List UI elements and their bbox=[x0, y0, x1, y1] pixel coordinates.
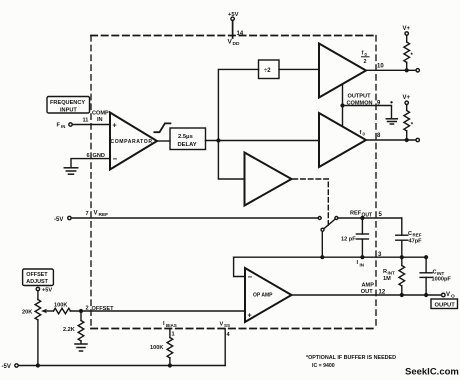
wire delay output to f0 buffer bbox=[206, 140, 320, 142]
svg-text:100K: 100K bbox=[54, 303, 67, 309]
svg-text:REF: REF bbox=[350, 211, 362, 217]
svg-text:÷2: ÷2 bbox=[264, 68, 271, 74]
node -5V rail terminal bbox=[2, 364, 19, 370]
wire REF OUT line bbox=[338, 217, 402, 219]
svg-text:BIAS: BIAS bbox=[166, 323, 177, 328]
wire FIN to comparator + input bbox=[73, 124, 111, 126]
wire output common to ground bbox=[343, 106, 392, 119]
junction offset/2.2K bbox=[79, 309, 83, 313]
buffer A2 (f0) bbox=[319, 113, 366, 167]
potentiometer 20K bbox=[22, 300, 54, 366]
ground (comparator input) bbox=[64, 168, 77, 174]
svg-text:DD: DD bbox=[233, 41, 240, 47]
node IBIAS bbox=[163, 321, 177, 328]
wire switch to IIN line bbox=[321, 232, 323, 258]
label f0/2 bbox=[362, 51, 370, 66]
junction rail/pot bbox=[36, 363, 40, 367]
svg-text:f: f bbox=[362, 51, 364, 57]
svg-text:7: 7 bbox=[86, 211, 89, 217]
svg-text:47pF: 47pF bbox=[409, 239, 423, 245]
svg-text:−: − bbox=[113, 155, 118, 164]
slew-rate waveform symbol bbox=[154, 123, 170, 132]
svg-text:1M: 1M bbox=[383, 276, 391, 282]
svg-text:DELAY: DELAY bbox=[178, 142, 197, 148]
svg-text:2: 2 bbox=[86, 306, 89, 312]
svg-text:100K: 100K bbox=[150, 345, 163, 351]
svg-text:2.2K: 2.2K bbox=[63, 327, 75, 333]
buffer A1 (f0/2) bbox=[319, 44, 366, 98]
svg-text:+5V: +5V bbox=[42, 288, 52, 294]
svg-text:IN: IN bbox=[61, 124, 65, 129]
svg-text:12 pF: 12 pF bbox=[341, 237, 356, 243]
junction delay output node bbox=[216, 138, 220, 142]
buffer A3 (optional) bbox=[245, 153, 292, 206]
svg-text:OUPUT: OUPUT bbox=[435, 303, 456, 309]
OFFSET ADJUST label box bbox=[23, 269, 54, 286]
ground (output common) bbox=[386, 119, 397, 124]
terminal VO output bbox=[442, 293, 446, 297]
node VO bbox=[446, 292, 455, 300]
capacitor CINT 1000pF bbox=[420, 257, 451, 295]
svg-text:V: V bbox=[446, 292, 450, 298]
svg-text:C: C bbox=[408, 231, 412, 237]
junction IIN/CINT bbox=[424, 255, 428, 259]
wire VSS to -5V rail bbox=[224, 329, 226, 366]
svg-text:-5V: -5V bbox=[54, 217, 63, 223]
wire output common tie bbox=[342, 84, 344, 126]
svg-text:1000pF: 1000pF bbox=[432, 277, 452, 283]
node OUTPUT COMMON bbox=[347, 94, 373, 107]
svg-text:INT: INT bbox=[437, 271, 445, 276]
IC package dashed boundary bbox=[91, 36, 376, 329]
svg-text:V: V bbox=[220, 322, 224, 328]
resistor 100K (offset) bbox=[54, 303, 71, 314]
terminal f0/2 output bbox=[416, 69, 419, 72]
svg-text:*OPTIONAL IF BUFFER IS NEEDED: *OPTIONAL IF BUFFER IS NEEDED bbox=[306, 355, 396, 361]
svg-text:20K: 20K bbox=[22, 310, 32, 316]
svg-text:10: 10 bbox=[377, 64, 384, 70]
wire op-amp output AMP OUT line bbox=[292, 294, 442, 296]
comparator U1 bbox=[110, 113, 157, 170]
svg-text:SeekIC.com: SeekIC.com bbox=[405, 367, 459, 378]
wire comparator output to delay bbox=[157, 140, 170, 142]
svg-text:INPUT: INPUT bbox=[60, 108, 77, 114]
svg-text:+: + bbox=[248, 313, 252, 320]
svg-text:f: f bbox=[360, 130, 362, 136]
node FIN input terminal bbox=[57, 123, 73, 130]
svg-text:FREQUENCY: FREQUENCY bbox=[50, 100, 85, 106]
node COMP IN bbox=[92, 111, 109, 124]
pin 6 GND bbox=[87, 153, 105, 159]
svg-text:SS: SS bbox=[224, 323, 230, 328]
svg-text:V+: V+ bbox=[403, 26, 411, 32]
svg-text:COMP: COMP bbox=[92, 111, 109, 117]
svg-text:R: R bbox=[383, 269, 387, 275]
wire junction down to optional buffer input bbox=[218, 141, 244, 180]
resistor pull-up R2 (optional) bbox=[404, 105, 414, 138]
svg-text:OUT: OUT bbox=[361, 289, 373, 295]
FREQUENCY INPUT label box bbox=[47, 97, 90, 114]
svg-text:INT: INT bbox=[388, 271, 396, 276]
junction output f0 bbox=[405, 138, 409, 142]
OUTPUT label box bbox=[431, 299, 458, 309]
svg-text:IC = 9400: IC = 9400 bbox=[312, 363, 335, 369]
resistor 2.2K bbox=[63, 311, 84, 344]
svg-text:AMP: AMP bbox=[362, 283, 375, 289]
wire comparator - input to ground bbox=[71, 159, 110, 168]
wire buffer A2 output to terminal bbox=[366, 139, 416, 141]
node AMP OUT bbox=[361, 283, 374, 296]
svg-text:IN: IN bbox=[97, 117, 103, 123]
node V+ (pull-up R2) bbox=[403, 95, 411, 105]
junction rail/100K bias bbox=[168, 363, 172, 367]
svg-text:2.5μs: 2.5μs bbox=[178, 134, 193, 140]
svg-text:−: − bbox=[248, 273, 253, 282]
node REF OUT bbox=[350, 211, 372, 219]
junction output f0/2 bbox=[405, 68, 409, 72]
divide-by-2 block bbox=[259, 60, 280, 79]
wire offset line to op-amp + input bbox=[70, 310, 245, 312]
svg-text:11: 11 bbox=[83, 118, 89, 124]
wire +5V to VDD pin 14 bbox=[232, 21, 234, 39]
svg-text:C: C bbox=[433, 270, 437, 276]
svg-text:OP AMP: OP AMP bbox=[253, 293, 273, 299]
capacitor 12pF bbox=[341, 218, 368, 257]
junction IIN/switch bbox=[320, 255, 324, 259]
node IIN bbox=[357, 260, 365, 268]
junction AMP OUT/CINT bbox=[424, 293, 428, 297]
svg-text:OUTPUT: OUTPUT bbox=[348, 94, 372, 100]
svg-text:V: V bbox=[94, 211, 98, 217]
svg-text:-5V: -5V bbox=[2, 364, 11, 370]
node VDD bbox=[228, 39, 240, 48]
wire -5V rail bbox=[19, 365, 226, 367]
ground (2.2K) bbox=[75, 344, 87, 351]
junction IIN/12pF bbox=[360, 255, 364, 259]
svg-text:12: 12 bbox=[379, 290, 386, 296]
node +5V supply terminal bbox=[228, 12, 239, 20]
op-amp U2 bbox=[245, 268, 292, 322]
svg-text:REF: REF bbox=[413, 233, 422, 238]
svg-text:OFFSET: OFFSET bbox=[26, 272, 48, 278]
resistor RINT 1M bbox=[383, 257, 405, 295]
svg-text:REF: REF bbox=[99, 212, 109, 218]
svg-text:F: F bbox=[57, 123, 61, 129]
svg-text:OFFSET: OFFSET bbox=[92, 306, 115, 312]
node V+ (pull-up R1) bbox=[403, 26, 411, 35]
capacitor CREF 47pF bbox=[396, 218, 422, 257]
dashed wire optional buffer output to switch bbox=[293, 179, 328, 225]
wire VREF line bbox=[71, 217, 317, 219]
svg-text:2: 2 bbox=[364, 59, 367, 65]
svg-text:COMMON: COMMON bbox=[347, 101, 373, 107]
svg-text:+: + bbox=[113, 123, 117, 130]
node VREF bbox=[94, 211, 109, 219]
node VSS bbox=[220, 322, 231, 329]
wire buffer A1 output to terminal bbox=[366, 69, 416, 71]
junction IIN/CREF/RINT bbox=[400, 255, 404, 259]
wire junction up to divide-by-2 bbox=[218, 69, 258, 140]
svg-text:IN: IN bbox=[360, 263, 365, 268]
wire IIN summing line bbox=[234, 256, 427, 258]
junction AMP OUT/RINT bbox=[400, 293, 404, 297]
switch S1 bbox=[318, 217, 338, 232]
node -5V VREF terminal bbox=[54, 216, 71, 223]
svg-text:14: 14 bbox=[237, 31, 244, 37]
node +5V offset terminal bbox=[36, 287, 52, 293]
terminal f0 output bbox=[416, 138, 419, 141]
label f0 bbox=[360, 130, 366, 137]
svg-text:ADJUST: ADJUST bbox=[26, 279, 48, 285]
svg-text:V+: V+ bbox=[403, 95, 411, 101]
junction REF OUT / 12pF bbox=[360, 216, 364, 220]
wire +5V to pot bbox=[37, 291, 39, 300]
svg-text:1: 1 bbox=[172, 332, 175, 338]
svg-text:COMPARATOR: COMPARATOR bbox=[111, 139, 153, 145]
wire divide-by-2 to buffer A1 bbox=[279, 68, 319, 70]
resistor 100K (bias) bbox=[150, 329, 173, 366]
junction output common bbox=[340, 103, 344, 107]
delay block 2.5us DELAY bbox=[170, 128, 206, 150]
resistor pull-up R1 (optional) bbox=[404, 36, 414, 69]
wire feedback IIN to op-amp inverting input bbox=[234, 257, 245, 276]
